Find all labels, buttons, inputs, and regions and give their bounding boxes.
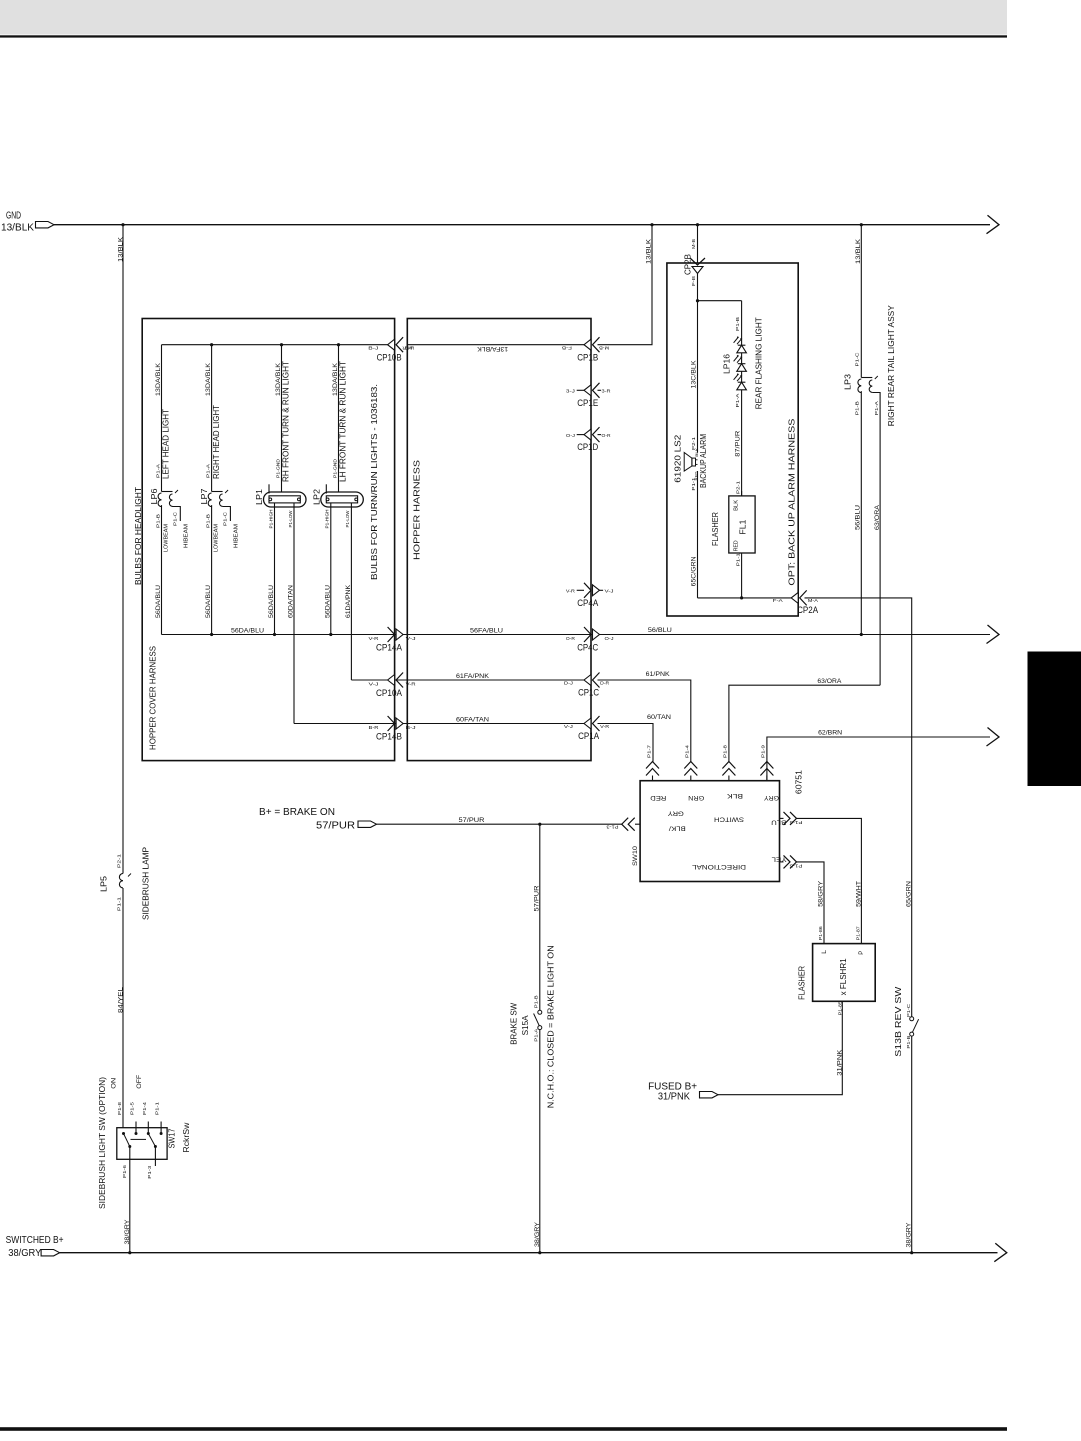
connector CP10B <box>396 337 403 352</box>
svg-text:P1-GND: P1-GND <box>275 459 280 478</box>
switch SW10 directional switch 60751 <box>640 781 779 882</box>
svg-text:84/YEL: 84/YEL <box>118 987 125 1013</box>
wire 13FA/BLK <box>407 344 584 346</box>
page header gray bar <box>0 0 1007 35</box>
svg-text:B-J: B-J <box>368 346 378 351</box>
svg-text:13C/BLK: 13C/BLK <box>690 360 697 389</box>
node branch to LP16 <box>696 299 699 302</box>
connector CP1E (spare) <box>577 389 584 391</box>
svg-text:D-J: D-J <box>564 681 573 686</box>
node 56/BLU-LP3 junction <box>860 633 863 636</box>
svg-text:S15A: S15A <box>520 1015 530 1035</box>
switch S15A brake switch <box>538 1010 542 1014</box>
svg-text:31/PNK: 31/PNK <box>836 1049 843 1076</box>
svg-text:BLK/: BLK/ <box>669 824 686 831</box>
svg-text:HOPPER COVER HARNESS: HOPPER COVER HARNESS <box>148 646 158 750</box>
svg-text:M-B: M-B <box>599 346 609 351</box>
svg-text:56/BLU: 56/BLU <box>648 627 672 634</box>
svg-text:O-R: O-R <box>602 433 611 438</box>
wire 38/GRY from brake switch <box>539 1029 541 1252</box>
wire SW17 P1-6 output 38/GRY <box>129 1147 131 1253</box>
wire 58/GRY (YEL to flasher L) <box>797 862 825 944</box>
svg-text:FL1: FL1 <box>738 519 748 534</box>
svg-text:O-R: O-R <box>566 636 575 641</box>
svg-text:P1-5: P1-5 <box>130 1101 135 1115</box>
node rail-SW17 <box>128 1251 131 1254</box>
svg-text:DIRECTIONAL: DIRECTIONAL <box>692 863 746 870</box>
wire 13/BLK CP1B to GND rail <box>598 225 653 345</box>
svg-text:BLK: BLK <box>695 447 699 457</box>
svg-text:CP14B: CP14B <box>376 732 402 742</box>
svg-text:61920 LS2: 61920 LS2 <box>673 434 682 483</box>
connector CP1B <box>593 337 600 352</box>
svg-text:V-J: V-J <box>605 589 614 594</box>
wire 65/GRN from CP2A <box>805 598 912 1017</box>
svg-text:13/BLK: 13/BLK <box>646 238 653 264</box>
connector CP1D (spare) <box>577 434 584 436</box>
connector CP1A <box>593 716 600 731</box>
svg-text:V-R: V-R <box>566 589 575 594</box>
svg-text:58/GRY: 58/GRY <box>818 880 825 907</box>
svg-text:BLK: BLK <box>726 792 743 799</box>
svg-text:REAR FLASHING LIGHT: REAR FLASHING LIGHT <box>753 317 763 409</box>
svg-text:M-R: M-R <box>402 346 412 351</box>
svg-text:13/BLK: 13/BLK <box>1 222 34 233</box>
svg-text:CP4C: CP4C <box>577 643 598 653</box>
lamp LP6 left head light <box>161 345 163 492</box>
svg-text:P1-A: P1-A <box>205 464 210 478</box>
svg-text:38/GRY: 38/GRY <box>906 1222 913 1248</box>
svg-text:P1-1: P1-1 <box>736 552 741 566</box>
svg-text:BLK: BLK <box>734 499 740 511</box>
svg-text:CP10A: CP10A <box>376 688 402 698</box>
svg-text:3-R: 3-R <box>602 389 611 394</box>
harness box BULBS FOR HEADLIGHT / HOPPER COVER HARNESS <box>142 319 394 761</box>
svg-text:61DA/PNK: 61DA/PNK <box>345 584 352 618</box>
wire 57/PUR down to brake switch <box>539 824 541 1010</box>
node bus-LP1 <box>280 343 283 346</box>
wire 38/GRY rail <box>60 1252 998 1254</box>
terminal SW10 P1-4 <box>684 762 697 776</box>
svg-text:P1-B: P1-B <box>155 514 160 528</box>
wire LP1 P1-HIGH 56DA/BLU lead <box>274 503 276 635</box>
svg-text:CP1B: CP1B <box>577 352 598 362</box>
svg-text:P1-C: P1-C <box>906 1004 911 1017</box>
svg-text:SWITCH: SWITCH <box>714 815 744 822</box>
connector CP1C <box>593 673 600 688</box>
svg-text:P1-6: P1-6 <box>789 820 803 825</box>
lamp LP5 sidebrush lamp <box>119 874 123 888</box>
svg-text:RH FRONT TURN & RUN LIGHT: RH FRONT TURN & RUN LIGHT <box>281 361 291 482</box>
svg-text:P1-6: P1-6 <box>122 1164 127 1178</box>
svg-text:HIBEAM: HIBEAM <box>183 524 189 548</box>
terminal SW10 P1-8 <box>722 762 735 776</box>
svg-text:P1-A: P1-A <box>874 401 879 415</box>
svg-text:V-R: V-R <box>369 636 379 641</box>
wire 31/PNK from flasher <box>718 1001 842 1094</box>
svg-text:F-B: F-B <box>691 276 696 286</box>
node bus-LP2 <box>337 343 340 346</box>
lamp LP2 LH front turn and run light <box>338 345 340 493</box>
svg-text:P: P <box>858 951 865 955</box>
svg-text:P2-1: P2-1 <box>116 853 121 868</box>
node rail-LP2 lead <box>329 633 332 636</box>
svg-text:P1-A: P1-A <box>155 464 160 478</box>
svg-text:M-B: M-B <box>691 239 696 249</box>
switch S13B reverse switch <box>910 1017 914 1021</box>
svg-text:BRAKE SW: BRAKE SW <box>509 1003 519 1045</box>
svg-text:LP1: LP1 <box>254 489 264 505</box>
svg-text:31/PNK: 31/PNK <box>658 1092 690 1103</box>
svg-text:P1-C: P1-C <box>223 512 228 526</box>
svg-text:38/GRY: 38/GRY <box>124 1219 131 1245</box>
svg-text:RIGHT REAR TAIL LIGHT ASSY: RIGHT REAR TAIL LIGHT ASSY <box>886 305 896 426</box>
svg-text:56DA/BLU: 56DA/BLU <box>268 585 275 618</box>
svg-text:P1-GND: P1-GND <box>332 459 337 478</box>
svg-text:38/GRY: 38/GRY <box>8 1248 41 1259</box>
lamp LP7 right head light <box>211 345 213 492</box>
svg-text:OFF: OFF <box>136 1075 143 1089</box>
svg-text:LP16: LP16 <box>722 354 732 374</box>
svg-text:56DA/BLU: 56DA/BLU <box>324 585 331 618</box>
svg-text:P1-4: P1-4 <box>685 744 690 758</box>
svg-text:O-J: O-J <box>566 433 575 438</box>
svg-text:57/PUR: 57/PUR <box>316 820 355 831</box>
svg-text:P1-1: P1-1 <box>691 477 696 491</box>
svg-text:P1-C: P1-C <box>173 512 178 526</box>
svg-text:P1-86: P1-86 <box>818 925 823 940</box>
svg-text:61/PNK: 61/PNK <box>646 671 671 678</box>
svg-text:P1-7: P1-7 <box>646 744 651 758</box>
svg-text:SIDEBRUSH LAMP: SIDEBRUSH LAMP <box>142 847 151 920</box>
lamp LP1 RH front turn and run light <box>281 345 283 493</box>
svg-text:ON: ON <box>111 1077 118 1088</box>
svg-text:P1-C: P1-C <box>855 353 860 367</box>
svg-text:V-J: V-J <box>369 682 379 687</box>
svg-text:P1-LOW: P1-LOW <box>345 510 350 527</box>
svg-text:F-B: F-B <box>562 346 572 351</box>
svg-text:56/BLU: 56/BLU <box>855 505 862 530</box>
svg-text:CP10B: CP10B <box>377 353 402 363</box>
connector CP14A <box>389 634 407 636</box>
wire 57/PUR to SW10 <box>377 823 622 825</box>
svg-text:60751: 60751 <box>793 770 803 794</box>
svg-text:HOPPER HARNESS: HOPPER HARNESS <box>412 460 422 560</box>
svg-text:57/PUR: 57/PUR <box>459 817 485 824</box>
svg-text:FLASHER: FLASHER <box>797 966 806 1000</box>
connector CP4A (spare) <box>577 589 584 591</box>
svg-text:P1-5: P1-5 <box>789 863 803 868</box>
svg-text:57/PUR: 57/PUR <box>533 885 540 911</box>
wire GND rail 13/BLK <box>54 224 990 226</box>
svg-text:LP2: LP2 <box>311 489 321 505</box>
wire 61/PNK to SW10 <box>407 679 584 681</box>
svg-text:P1-9: P1-9 <box>761 744 766 758</box>
terminal SW10 P1-9 <box>760 762 773 776</box>
connector CP2B <box>697 225 699 264</box>
svg-text:60/TAN: 60/TAN <box>647 714 671 721</box>
svg-text:SIDEBRUSH LIGHT SW (OPTION): SIDEBRUSH LIGHT SW (OPTION) <box>98 1077 107 1209</box>
wire 13DA/BLK bus <box>162 344 390 346</box>
wire 60DA/TAN elbow to CP14B <box>294 723 389 725</box>
svg-text:LEFT HEAD LIGHT: LEFT HEAD LIGHT <box>161 409 171 479</box>
node rail-LP7 lead <box>210 633 213 636</box>
svg-text:63/ORA: 63/ORA <box>817 678 842 685</box>
terminal SW10 P1-3 (57/PUR input) <box>622 818 635 831</box>
svg-text:62/BRN: 62/BRN <box>818 730 842 737</box>
terminal SW10 YEL output <box>784 855 797 868</box>
svg-text:CP14A: CP14A <box>376 643 402 653</box>
svg-text:13/BLK: 13/BLK <box>118 236 125 262</box>
svg-text:LP6: LP6 <box>149 488 159 504</box>
terminal SW10 BLU output <box>784 812 797 825</box>
speaker LS2 backup alarm 61920 <box>692 458 696 466</box>
svg-text:61FA/PNK: 61FA/PNK <box>456 673 490 680</box>
svg-text:CP1D: CP1D <box>577 442 598 452</box>
svg-text:P1-8: P1-8 <box>723 744 728 758</box>
svg-text:60FA/TAN: 60FA/TAN <box>456 716 489 723</box>
svg-text:BULBS FOR TURN/RUN LIGHTS - 10: BULBS FOR TURN/RUN LIGHTS - 1036183. <box>369 384 379 580</box>
connector CP14B <box>389 723 407 725</box>
net GND 13/BLK flag terminal <box>36 222 55 228</box>
svg-text:P1-HIGH: P1-HIGH <box>268 510 273 529</box>
flasher FL1 <box>741 491 743 496</box>
svg-text:LOWBEAM: LOWBEAM <box>164 524 170 552</box>
svg-text:N.C.H.O.: CLOSED = BRAKE LIGHT: N.C.H.O.: CLOSED = BRAKE LIGHT ON <box>545 945 555 1108</box>
wire LP2 P1-LOW 61DA/PNK lead <box>350 503 352 680</box>
svg-text:3-J: 3-J <box>566 389 575 394</box>
svg-text:P1-8: P1-8 <box>117 1101 122 1115</box>
svg-text:SW17: SW17 <box>167 1128 177 1148</box>
svg-text:CP1E: CP1E <box>577 398 598 408</box>
svg-text:59/WHT: 59/WHT <box>855 881 862 907</box>
node rail-LP1 lead <box>273 633 276 636</box>
svg-text:SW10: SW10 <box>632 846 639 866</box>
wire backup alarm return <box>698 597 792 599</box>
svg-text:M-A: M-A <box>808 598 818 603</box>
svg-text:13DA/BLK: 13DA/BLK <box>205 362 212 396</box>
node GND-CP1B junction <box>650 223 653 226</box>
svg-text:GND: GND <box>6 210 21 221</box>
wire 65/GRN below REV SW <box>911 1036 913 1253</box>
svg-text:P1-A: P1-A <box>533 1028 538 1041</box>
node FL1 return junction <box>740 596 743 599</box>
svg-text:P1-4: P1-4 <box>142 1101 147 1115</box>
svg-text:HIBEAM: HIBEAM <box>233 524 239 548</box>
node GND-CP2B junction <box>696 223 699 226</box>
page footer rule <box>0 1427 1007 1431</box>
svg-text:BULBS FOR HEADLIGHT: BULBS FOR HEADLIGHT <box>133 487 143 585</box>
switch SW17 rocker switch <box>117 1128 167 1160</box>
svg-text:BACKUP ALARM: BACKUP ALARM <box>699 434 708 488</box>
svg-text:P1-B: P1-B <box>855 401 860 415</box>
svg-text:SWITCHED B+: SWITCHED B+ <box>6 1235 64 1246</box>
lamp LP16 rear flashing light <box>741 301 743 345</box>
connector CP4C <box>584 627 591 642</box>
svg-text:63/ORA: 63/ORA <box>874 504 881 530</box>
svg-text:x FLSHR1: x FLSHR1 <box>838 958 848 995</box>
svg-text:LP3: LP3 <box>842 374 852 390</box>
svg-text:38/GRY: 38/GRY <box>534 1221 541 1247</box>
svg-text:65/GRN: 65/GRN <box>905 881 912 907</box>
svg-text:P1-3: P1-3 <box>606 824 619 829</box>
svg-text:P1-1: P1-1 <box>116 896 121 911</box>
wire 59/WHT (BLU to flasher P) <box>797 818 862 943</box>
svg-text:F-A: F-A <box>773 598 783 603</box>
svg-text:P1-LOW: P1-LOW <box>288 510 293 527</box>
wire 56/BLU rail <box>407 634 990 636</box>
svg-text:56DA/BLU: 56DA/BLU <box>205 585 212 618</box>
svg-text:B-R: B-R <box>369 725 379 730</box>
terminal SW10 P1-7 <box>646 762 659 776</box>
svg-text:O-J: O-J <box>605 636 614 641</box>
svg-text:P1-3: P1-3 <box>147 1165 152 1179</box>
svg-text:P1-1: P1-1 <box>155 1101 160 1115</box>
svg-text:L: L <box>821 949 828 953</box>
svg-text:RckrSw: RckrSw <box>181 1122 191 1153</box>
wire 13C/BLK <box>697 274 699 453</box>
svg-text:CP1A: CP1A <box>578 731 599 741</box>
node rail-brake <box>538 1251 541 1254</box>
wire LP1 P1-LOW 60DA/TAN lead <box>293 503 295 724</box>
flasher FLSHR1 <box>813 944 876 1002</box>
svg-text:60DA/TAN: 60DA/TAN <box>288 585 295 618</box>
svg-text:RED: RED <box>650 794 666 801</box>
svg-text:P1-B: P1-B <box>534 995 539 1008</box>
node 57/PUR brake branch <box>538 823 541 826</box>
svg-text:P1-B: P1-B <box>735 317 740 331</box>
svg-text:CP1C: CP1C <box>578 688 599 698</box>
wire 13/BLK vertical to LP5 <box>122 225 124 874</box>
svg-text:65C/GRN: 65C/GRN <box>690 556 697 586</box>
svg-text:GRY: GRY <box>667 810 684 817</box>
wire 60/TAN to SW10 <box>407 723 584 725</box>
node GND-13BLK junction <box>121 223 124 226</box>
svg-text:LP5: LP5 <box>99 876 109 892</box>
wire 56DA/BLU rail <box>162 634 390 636</box>
wire SW17 P1-3 stub <box>154 1147 156 1167</box>
svg-text:LH FRONT TURN & RUN LIGHT: LH FRONT TURN & RUN LIGHT <box>338 361 348 482</box>
svg-text:D-R: D-R <box>600 681 609 686</box>
svg-text:S13B REV SW: S13B REV SW <box>893 987 903 1057</box>
wire LP2 P1-HIGH 56DA/BLU lead <box>330 503 332 635</box>
svg-text:P1-HIGH: P1-HIGH <box>325 510 330 529</box>
svg-text:13FA/BLK: 13FA/BLK <box>476 345 508 352</box>
svg-text:GRN: GRN <box>688 794 704 801</box>
svg-text:CP4A: CP4A <box>577 598 598 608</box>
wire 65C/GRN <box>697 471 699 598</box>
connector CP2A <box>800 590 807 605</box>
wire 62/BRN <box>767 737 990 781</box>
svg-text:V-J: V-J <box>564 724 573 729</box>
harness box HOPPER HARNESS <box>407 319 591 761</box>
lamp LP3 right rear tail light <box>860 225 862 378</box>
svg-text:P1-B: P1-B <box>205 514 210 528</box>
svg-text:V-R: V-R <box>600 724 609 729</box>
svg-text:GRY: GRY <box>763 794 779 801</box>
svg-text:13/BLK: 13/BLK <box>855 238 862 264</box>
svg-text:87/PUR: 87/PUR <box>734 430 741 456</box>
svg-text:RED: RED <box>734 540 740 551</box>
svg-text:OPT: BACK UP ALARM HARNESS: OPT: BACK UP ALARM HARNESS <box>787 419 796 586</box>
node bus-LP7 <box>210 343 213 346</box>
svg-text:CP2A: CP2A <box>797 605 818 615</box>
svg-text:CP2B: CP2B <box>682 254 692 275</box>
svg-text:LOWBEAM: LOWBEAM <box>214 524 220 552</box>
svg-text:P1-A: P1-A <box>735 393 740 407</box>
svg-text:56DA/BLU: 56DA/BLU <box>155 585 162 618</box>
svg-text:FLASHER: FLASHER <box>711 512 720 546</box>
svg-text:56DA/BLU: 56DA/BLU <box>231 628 264 635</box>
black redaction block right margin <box>1028 652 1081 787</box>
node GND-LP3 junction <box>860 223 863 226</box>
wire 61DA/PNK elbow to CP10A <box>351 679 389 681</box>
connector CP10A <box>389 679 407 681</box>
svg-text:LP7: LP7 <box>199 488 209 504</box>
node rail-65GRN <box>910 1251 913 1254</box>
svg-text:P1-87: P1-87 <box>855 925 860 940</box>
svg-text:RIGHT HEAD LIGHT: RIGHT HEAD LIGHT <box>211 405 221 479</box>
svg-text:P1-B: P1-B <box>906 1035 911 1048</box>
svg-text:B+ = BRAKE ON: B+ = BRAKE ON <box>259 807 335 818</box>
harness box OPT: BACK UP ALARM HARNESS <box>667 263 798 616</box>
svg-text:56FA/BLU: 56FA/BLU <box>470 628 503 635</box>
svg-text:P2-1: P2-1 <box>736 480 741 494</box>
svg-text:P1-85: P1-85 <box>837 1000 842 1015</box>
svg-text:13DA/BLK: 13DA/BLK <box>155 362 162 396</box>
